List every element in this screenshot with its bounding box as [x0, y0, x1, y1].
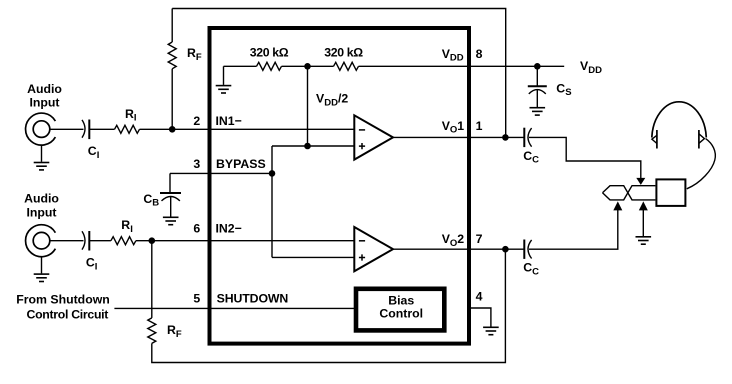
svg-text:Input: Input [29, 96, 59, 110]
svg-text:3: 3 [193, 157, 200, 171]
svg-text:Control Circuit: Control Circuit [27, 308, 109, 322]
svg-text:6: 6 [193, 221, 200, 235]
svg-text:2: 2 [193, 114, 200, 128]
svg-text:SHUTDOWN: SHUTDOWN [217, 292, 289, 306]
svg-text:BYPASS: BYPASS [216, 157, 266, 171]
svg-text:Audio: Audio [27, 82, 62, 96]
svg-text:320 kΩ: 320 kΩ [324, 46, 363, 60]
svg-text:4: 4 [476, 289, 483, 303]
svg-text:From Shutdown: From Shutdown [16, 293, 110, 307]
svg-text:IN2−: IN2− [216, 221, 242, 235]
svg-text:8: 8 [476, 47, 483, 61]
svg-text:Bias: Bias [388, 294, 414, 308]
svg-text:Input: Input [26, 206, 56, 220]
svg-text:7: 7 [476, 232, 483, 246]
svg-text:5: 5 [193, 292, 200, 306]
svg-text:Audio: Audio [24, 192, 59, 206]
svg-text:IN1−: IN1− [216, 114, 242, 128]
svg-text:320 kΩ: 320 kΩ [250, 46, 289, 60]
svg-text:1: 1 [476, 119, 483, 133]
svg-text:Control: Control [379, 307, 423, 321]
